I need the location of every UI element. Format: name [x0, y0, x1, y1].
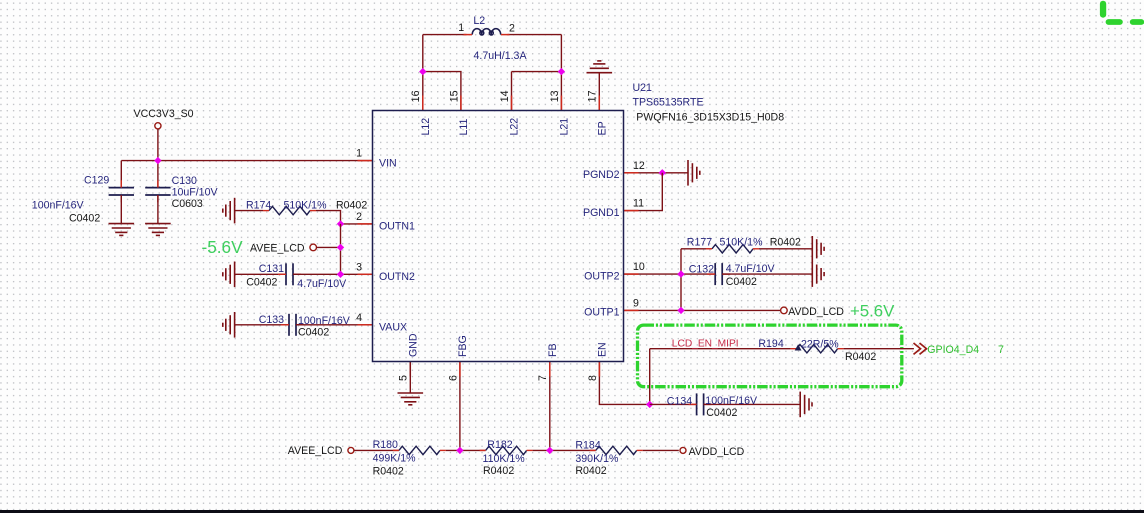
wire C132 to ground — [722, 273, 812, 275]
svg-text:FB: FB — [547, 343, 559, 357]
svg-text:-5.6V: -5.6V — [202, 237, 244, 257]
svg-text:EN: EN — [596, 342, 608, 357]
svg-text:LCD_EN_MIPI: LCD_EN_MIPI — [672, 338, 739, 349]
svg-text:R174: R174 — [246, 200, 271, 212]
svg-text:4.7uH/1.3A: 4.7uH/1.3A — [474, 50, 528, 62]
power port VCC3V3_S0 circle — [155, 123, 161, 129]
svg-text:3: 3 — [356, 261, 362, 273]
svg-text:AVEE_LCD: AVEE_LCD — [250, 242, 305, 254]
svg-text:C0402: C0402 — [246, 277, 277, 289]
svg-text:7: 7 — [537, 375, 549, 381]
svg-text:C133: C133 — [259, 314, 284, 326]
capacitor C133 — [289, 314, 296, 336]
capacitor C134 stubs — [689, 403, 712, 405]
svg-text:1: 1 — [458, 22, 464, 34]
svg-text:C0603: C0603 — [172, 198, 203, 210]
green dashed corner top-right — [1100, 1, 1144, 25]
wire R177 left — [681, 248, 712, 250]
wire pin5 to ground — [409, 362, 411, 394]
svg-text:VAUX: VAUX — [379, 322, 407, 334]
off-page connector chevrons GPIO4_D4 — [914, 343, 927, 354]
junction FBG node — [456, 447, 463, 454]
svg-text:11: 11 — [633, 198, 644, 210]
svg-text:R194: R194 — [758, 338, 783, 350]
wire pin9 OUTP1 — [624, 309, 781, 311]
wire R184 to AVDD port — [643, 449, 679, 451]
inductor L2 coil — [472, 29, 501, 35]
svg-text:+5.6V: +5.6V — [850, 301, 895, 320]
ground left of C131 — [223, 262, 235, 288]
junction OUTP2 node — [677, 270, 684, 277]
svg-text:1: 1 — [356, 148, 362, 160]
svg-text:4.7uF/10V: 4.7uF/10V — [726, 263, 776, 275]
wire R174 to pin2 node — [316, 211, 341, 224]
svg-text:L22: L22 — [509, 118, 521, 136]
svg-text:TPS65135RTE: TPS65135RTE — [633, 97, 704, 109]
svg-text:AVEE_LCD: AVEE_LCD — [288, 445, 343, 457]
junction right top loop — [558, 68, 565, 75]
svg-text:R180: R180 — [373, 439, 398, 451]
wire pin17 EP — [598, 73, 600, 111]
svg-text:C129: C129 — [84, 174, 109, 186]
svg-text:R0402: R0402 — [336, 200, 367, 212]
ground right of C134 — [800, 392, 812, 418]
wire C129 to ground — [120, 195, 122, 224]
wire pin6 FBG down — [459, 362, 461, 451]
svg-text:100nF/16V: 100nF/16V — [32, 200, 85, 212]
svg-text:PWQFN16_3D15X3D15_H0D8: PWQFN16_3D15X3D15_H0D8 — [636, 111, 784, 123]
svg-text:OUTN1: OUTN1 — [379, 221, 415, 233]
svg-text:10uF/10V: 10uF/10V — [172, 187, 219, 199]
svg-text:8: 8 — [587, 375, 599, 381]
svg-text:2: 2 — [356, 211, 362, 223]
probe triangle marker — [795, 344, 802, 350]
capacitor C129 — [109, 188, 134, 195]
svg-text:FBG: FBG — [457, 335, 469, 357]
resistor R174 — [269, 206, 310, 214]
svg-text:R184: R184 — [575, 440, 600, 452]
svg-text:C131: C131 — [259, 263, 284, 275]
svg-text:15: 15 — [448, 90, 460, 102]
wire pin11 PGND1 — [624, 173, 663, 211]
wire AVEE to R180 — [354, 449, 399, 451]
ground above pin17 — [587, 61, 613, 73]
svg-text:22R/5%: 22R/5% — [801, 338, 839, 350]
ground right of R177 — [812, 236, 824, 262]
svg-text:2: 2 — [509, 22, 515, 34]
wire C131 to pin3 — [293, 273, 373, 275]
svg-text:499K/1%: 499K/1% — [373, 452, 417, 464]
wire R180 to FBG node — [446, 449, 486, 451]
svg-text:L11: L11 — [458, 119, 470, 136]
wire AVEE to node — [316, 246, 340, 248]
capacitor C130 — [145, 188, 170, 195]
port AVDD_LCD circle bottom — [680, 447, 686, 453]
svg-text:VIN: VIN — [379, 157, 397, 169]
svg-text:VCC3V3_S0: VCC3V3_S0 — [134, 108, 194, 120]
junction OUTN1 node — [337, 220, 344, 227]
svg-text:5: 5 — [398, 375, 410, 381]
svg-text:110K/1%: 110K/1% — [483, 453, 526, 465]
wire top loop left — [423, 34, 467, 36]
svg-text:R0402: R0402 — [373, 465, 404, 477]
wire right column pin13 — [560, 35, 562, 111]
svg-text:9: 9 — [633, 298, 639, 310]
svg-text:L2: L2 — [473, 15, 485, 27]
ground right of PGND2 — [688, 160, 700, 186]
wire C133 to pin4 — [296, 324, 373, 326]
resistor R182 stubs — [480, 449, 533, 451]
svg-text:C0402: C0402 — [298, 327, 329, 339]
svg-text:R0402: R0402 — [770, 237, 801, 249]
wire LCD_EN_MIPI — [650, 348, 791, 350]
svg-text:AVDD_LCD: AVDD_LCD — [689, 446, 745, 458]
svg-text:OUTP1: OUTP1 — [584, 307, 619, 319]
resistor R184 — [596, 446, 637, 454]
svg-text:16: 16 — [410, 90, 422, 102]
junction PGND node — [659, 169, 666, 176]
svg-text:7: 7 — [998, 344, 1004, 356]
junction OUTN2 node — [337, 271, 344, 278]
svg-text:14: 14 — [499, 90, 511, 102]
wire gnd to R174 — [235, 210, 263, 212]
junction EN node — [646, 401, 653, 408]
ground below C130 — [145, 224, 171, 236]
resistor R174 stubs — [263, 210, 316, 212]
svg-text:C134: C134 — [667, 396, 692, 408]
svg-text:L21: L21 — [558, 118, 570, 136]
svg-text:R0402: R0402 — [483, 465, 514, 477]
port AVEE_LCD circle bottom — [348, 447, 354, 453]
wire gnd to C133 — [235, 324, 289, 326]
svg-text:EP: EP — [596, 121, 608, 135]
junction VCC node — [154, 157, 161, 164]
wire pin8 EN down — [599, 362, 649, 405]
junction OUTP1 node — [677, 307, 684, 314]
wire C129 drop — [120, 161, 122, 188]
capacitor C133 stubs — [281, 324, 304, 326]
op-amp/IC U21 body — [373, 111, 624, 362]
resistor R182 — [486, 446, 527, 454]
wire C134 to ground — [704, 403, 801, 405]
svg-text:R177: R177 — [687, 237, 712, 249]
wire EN node up — [649, 349, 651, 405]
svg-text:4: 4 — [356, 312, 362, 324]
junction FB node — [546, 447, 553, 454]
svg-text:C0402: C0402 — [69, 212, 100, 224]
wire left column pin16 — [422, 35, 424, 111]
svg-text:390K/1%: 390K/1% — [575, 453, 619, 465]
svg-text:C0402: C0402 — [726, 276, 757, 288]
capacitor C131 stubs — [278, 273, 301, 275]
wire branch to pin14 — [511, 72, 513, 111]
svg-text:10: 10 — [633, 261, 645, 273]
svg-text:L12: L12 — [420, 118, 432, 136]
wire pin7 FB down — [549, 362, 551, 451]
wire pin12 PGND2 — [624, 172, 689, 174]
svg-text:AVDD_LCD: AVDD_LCD — [788, 306, 844, 318]
resistor R194 stubs — [791, 348, 844, 350]
capacitor C132 — [715, 263, 722, 285]
wire top loop right — [508, 34, 562, 36]
ground left of C133 — [223, 312, 235, 338]
wire OUTN1-OUTN2 column — [340, 224, 342, 274]
IC U21 pin stubs — [358, 96, 639, 377]
svg-text:GND: GND — [407, 333, 419, 357]
wire R177 to ground — [759, 248, 812, 250]
svg-text:100nF/16V: 100nF/16V — [298, 315, 351, 327]
capacitor C132 stubs — [707, 273, 730, 275]
svg-text:6: 6 — [447, 375, 459, 381]
svg-text:4.7uF/10V: 4.7uF/10V — [297, 278, 347, 290]
resistor R177 stubs — [706, 248, 759, 250]
wire pin2 OUTN1 — [341, 223, 373, 225]
resistor R177 — [712, 245, 753, 253]
capacitor C131 — [286, 263, 293, 285]
capacitor C130 stubs — [157, 180, 159, 202]
wire R182 to FB node — [533, 449, 596, 451]
ground left of R174 — [223, 198, 235, 224]
svg-text:17: 17 — [587, 90, 599, 102]
resistor R194 — [797, 345, 838, 353]
ground below pin5 — [398, 393, 424, 405]
svg-text:510K/1%: 510K/1% — [720, 237, 764, 249]
svg-text:PGND2: PGND2 — [583, 169, 620, 181]
inductor L2 pin stubs — [464, 34, 510, 36]
junction AVEE node — [337, 244, 344, 251]
svg-text:13: 13 — [549, 90, 561, 102]
svg-text:R0402: R0402 — [845, 351, 876, 363]
capacitor C129 stubs — [120, 180, 122, 202]
resistor R180 stubs — [393, 449, 446, 451]
svg-text:R182: R182 — [487, 439, 512, 451]
ground below C129 — [109, 224, 135, 236]
wire gnd to C131 — [235, 273, 286, 275]
port AVDD_LCD circle mid — [781, 307, 788, 314]
svg-text:GPIO4_D4: GPIO4_D4 — [927, 344, 979, 356]
wire branch to pin15 — [423, 72, 461, 111]
svg-text:12: 12 — [633, 160, 645, 172]
highlight green dashed box — [638, 325, 902, 387]
wire pin10 OUTP2 — [624, 273, 716, 275]
svg-text:C0402: C0402 — [706, 407, 737, 419]
svg-text:U21: U21 — [633, 82, 653, 94]
wire C130 to ground — [157, 195, 159, 224]
svg-text:C130: C130 — [172, 175, 197, 187]
svg-text:OUTN2: OUTN2 — [379, 271, 415, 283]
svg-text:C132: C132 — [689, 263, 714, 275]
wire R177 left column — [680, 249, 682, 311]
wire R194 to port — [844, 348, 914, 350]
sheet border bottom bar — [0, 510, 1144, 513]
svg-text:510K/1%: 510K/1% — [284, 200, 328, 212]
svg-text:100nF/16V: 100nF/16V — [705, 395, 758, 407]
wire VIN net horizontal — [121, 160, 372, 162]
svg-text:PGND1: PGND1 — [583, 207, 620, 219]
junction left top loop — [419, 68, 426, 75]
capacitor C134 — [697, 393, 704, 415]
wire VCC down from port — [157, 129, 159, 188]
resistor R180 — [399, 446, 440, 454]
svg-text:OUTP2: OUTP2 — [584, 270, 619, 282]
ground right of C132 — [812, 261, 824, 287]
wire branch pin14 horizontal — [512, 71, 562, 73]
wire EN to C134 — [650, 403, 697, 405]
port AVEE_LCD circle mid — [310, 244, 317, 251]
resistor R184 stubs — [590, 449, 643, 451]
svg-text:R0402: R0402 — [575, 465, 606, 477]
